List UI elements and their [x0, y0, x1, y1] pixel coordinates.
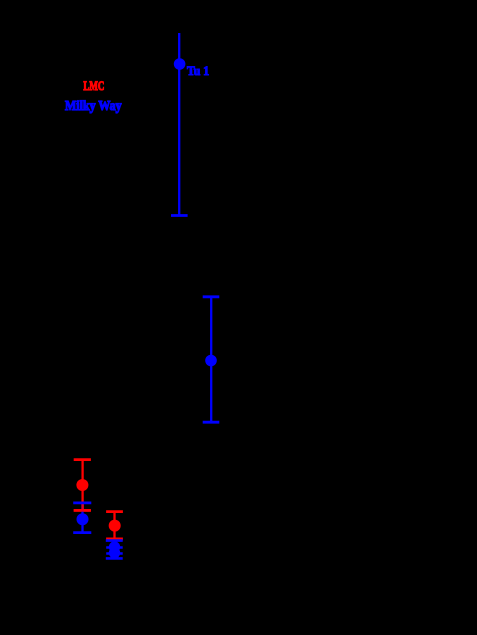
svg-text:LMC: LMC — [83, 78, 104, 93]
svg-text:Tu 1: Tu 1 — [187, 63, 209, 78]
error bar red right group — [106, 512, 123, 539]
error bar blue cluster lower (right group) — [106, 548, 123, 559]
data point blue left — [77, 513, 89, 525]
data point red right — [109, 520, 121, 532]
data point blue cluster upper — [109, 541, 120, 552]
data point 2 (blue) — [205, 355, 217, 367]
data point blue cluster lower — [109, 547, 120, 558]
error bar Tu 1 (blue, top) — [171, 33, 188, 216]
error bar red left group — [74, 460, 91, 511]
svg-text:Milky Way: Milky Way — [65, 98, 122, 113]
error bar red left group lower segment (drawn over blue) — [74, 504, 91, 510]
error bar blue point 2 (middle) — [203, 297, 220, 422]
data point red left — [76, 479, 88, 491]
error bar blue cluster upper (right group) — [106, 541, 123, 554]
data point Tu 1 (blue) — [174, 58, 186, 70]
error bar blue left group — [73, 503, 91, 533]
